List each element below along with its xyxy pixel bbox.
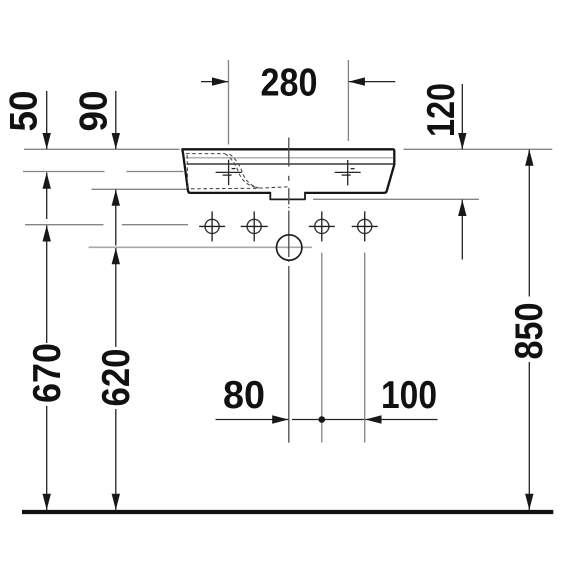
svg-text:620: 620 [95,349,138,407]
svg-text:670: 670 [26,343,69,403]
svg-text:80: 80 [223,374,265,417]
svg-text:280: 280 [261,61,318,104]
svg-text:100: 100 [381,374,437,417]
svg-text:90: 90 [72,91,115,132]
svg-text:120: 120 [420,83,463,137]
svg-text:850: 850 [508,303,551,360]
svg-text:50: 50 [2,91,45,132]
